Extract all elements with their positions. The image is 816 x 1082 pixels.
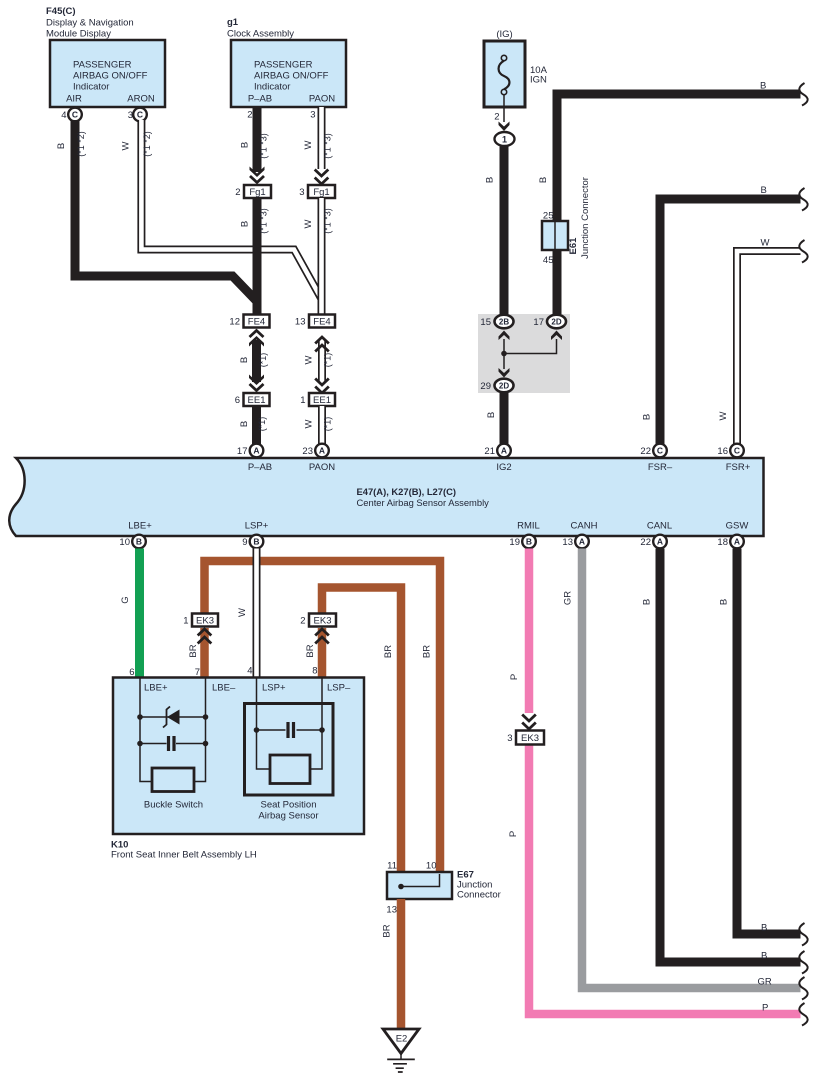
sensor internal wires — [257, 678, 323, 770]
svg-text:AIRBAG ON/OFF: AIRBAG ON/OFF — [254, 71, 329, 82]
svg-text:15: 15 — [480, 317, 491, 328]
svg-text:B: B — [486, 412, 497, 418]
svg-text:EE1: EE1 — [248, 395, 266, 406]
wire B from pin 18 GSW to right edge — [737, 549, 801, 935]
svg-text:21: 21 — [484, 446, 495, 457]
svg-text:B: B — [538, 177, 549, 183]
svg-text:Seat Position: Seat Position — [261, 800, 317, 811]
svg-text:11: 11 — [387, 861, 397, 872]
wire BR from K10 pin 8 up through EK3 over to E67 pin 11 — [322, 588, 401, 900]
svg-text:7: 7 — [195, 667, 200, 678]
svg-text:GR: GR — [563, 591, 574, 605]
svg-text:A: A — [501, 446, 507, 456]
svg-text:FE4: FE4 — [248, 317, 265, 328]
svg-text:F45(C): F45(C) — [46, 6, 76, 17]
svg-text:13: 13 — [295, 317, 306, 328]
svg-text:2D: 2D — [499, 382, 509, 391]
svg-text:EK3: EK3 — [314, 616, 332, 627]
svg-text:W: W — [303, 219, 314, 228]
gray splice block — [478, 314, 570, 393]
connector pin 1 oval — [495, 132, 515, 146]
zener diode in buckle switch — [167, 710, 180, 725]
wire B from EE1 to pin 17 — [252, 406, 261, 444]
arrow up into 17 2D — [551, 331, 562, 341]
svg-text:W: W — [303, 140, 314, 149]
svg-text:PAON: PAON — [309, 94, 335, 105]
svg-text:6: 6 — [235, 395, 240, 406]
svg-text:4: 4 — [247, 666, 252, 677]
svg-text:W: W — [718, 411, 729, 420]
wire P from pin 19 RMIL down to EK3 and right edge — [529, 549, 801, 1015]
connector 6 EE1 — [235, 393, 270, 406]
svg-text:(IG): (IG) — [496, 29, 512, 40]
svg-text:BR: BR — [188, 644, 199, 657]
splice wiring inside gray block — [504, 339, 557, 369]
svg-text:C: C — [137, 110, 143, 120]
wire B from FE4 to EE1 — [252, 340, 261, 382]
svg-text:B: B — [240, 221, 251, 227]
pin 21 (A) IG2 — [484, 444, 510, 458]
svg-text:8: 8 — [312, 666, 317, 677]
svg-text:W: W — [237, 608, 248, 617]
svg-text:3: 3 — [128, 110, 133, 121]
pin 16 (C) FSR+ — [717, 444, 743, 458]
svg-text:Indicator: Indicator — [254, 82, 290, 93]
svg-text:EK3: EK3 — [196, 616, 214, 627]
svg-text:EE1: EE1 — [313, 395, 331, 406]
svg-text:A: A — [579, 537, 585, 547]
pin 19 (B) RMIL — [509, 535, 535, 549]
svg-text:(*1): (*1) — [258, 353, 268, 368]
svg-text:2D: 2D — [551, 318, 561, 327]
pin 9 (B) LSP+ — [242, 535, 263, 549]
svg-text:(*1 *3): (*1 *3) — [259, 208, 269, 234]
pin 18 (A) GSW — [717, 535, 743, 549]
svg-text:2B: 2B — [499, 318, 509, 327]
svg-text:Junction Connector: Junction Connector — [580, 177, 591, 259]
wire B from Fg1 to FE4 — [253, 198, 262, 314]
svg-text:A: A — [657, 537, 663, 547]
wire B from E61 pin 25 up and right to break — [557, 94, 801, 221]
svg-text:CANL: CANL — [647, 521, 672, 532]
splice oval 15 2B — [480, 315, 513, 329]
wire W from FE4 to EE1 — [318, 340, 326, 382]
wire from fuse to pin 1 — [503, 95, 505, 122]
svg-text:Fg1: Fg1 — [313, 187, 329, 198]
svg-text:Connector: Connector — [457, 890, 501, 901]
wire B from pin 22 CANL to right edge — [660, 549, 801, 963]
svg-text:PASSENGER: PASSENGER — [73, 60, 132, 71]
svg-text:29: 29 — [480, 381, 491, 392]
junction connector E67 — [386, 861, 500, 916]
svg-text:Buckle Switch: Buckle Switch — [144, 800, 203, 811]
connector 13 FE4 — [295, 315, 335, 328]
svg-text:P–AB: P–AB — [248, 94, 272, 105]
svg-text:(*1 *3): (*1 *3) — [323, 208, 333, 234]
wire BR from E67 pin 13 down to ground E2 — [397, 899, 406, 1030]
svg-text:17: 17 — [237, 446, 248, 457]
svg-text:1: 1 — [183, 616, 188, 627]
svg-text:IG2: IG2 — [496, 462, 511, 473]
pin 17 (A) P-AB — [237, 444, 263, 458]
svg-text:A: A — [734, 537, 740, 547]
svg-text:PASSENGER: PASSENGER — [254, 60, 313, 71]
junction dot — [501, 351, 507, 357]
svg-text:LBE+: LBE+ — [144, 683, 168, 694]
connector 12 FE4 — [229, 315, 269, 328]
svg-text:BR: BR — [383, 645, 394, 658]
arrow up into 2 EK3 — [315, 629, 329, 644]
svg-text:LSP–: LSP– — [327, 683, 351, 694]
pin 22 (C) FSR- — [640, 444, 666, 458]
svg-text:10: 10 — [119, 537, 130, 548]
svg-text:B: B — [761, 923, 767, 934]
wire B from connector 1 down to splice 2B — [500, 147, 509, 316]
svg-text:2: 2 — [494, 112, 499, 123]
wire break CANL — [799, 951, 807, 974]
connector 3 EK3 — [507, 731, 544, 745]
E67 junction dot — [398, 884, 404, 890]
svg-text:PAON: PAON — [309, 462, 335, 473]
svg-text:W: W — [304, 419, 315, 428]
svg-text:(*1): (*1) — [323, 353, 333, 368]
E67 internal bus wire — [401, 874, 440, 887]
seat position airbag sensor box — [245, 704, 334, 796]
wire B from F45 AIR to P-AB line — [75, 120, 258, 303]
svg-text:16: 16 — [717, 446, 728, 457]
svg-text:W: W — [304, 355, 315, 364]
svg-text:Indicator: Indicator — [73, 82, 109, 93]
svg-text:18: 18 — [717, 537, 728, 548]
svg-text:IGN: IGN — [530, 75, 547, 86]
svg-text:B: B — [642, 414, 653, 420]
svg-text:B: B — [760, 81, 766, 92]
ground E2 — [383, 1029, 419, 1072]
svg-text:FSR–: FSR– — [648, 462, 673, 473]
svg-text:RMIL: RMIL — [517, 521, 540, 532]
svg-text:(*1 *2): (*1 *2) — [76, 131, 86, 157]
wire break P — [799, 1003, 807, 1026]
svg-text:B: B — [719, 599, 730, 605]
wire GR from pin 13 CANH to right edge — [582, 549, 801, 989]
wire break GR — [799, 977, 807, 1000]
arrow into Fg1 pin 3 (white) — [315, 170, 329, 185]
svg-text:G: G — [120, 596, 131, 603]
wire break FSR+ — [799, 240, 807, 263]
svg-text:E61: E61 — [568, 237, 579, 255]
svg-text:3: 3 — [507, 733, 512, 744]
svg-text:13: 13 — [562, 537, 573, 548]
svg-text:P–AB: P–AB — [248, 462, 272, 473]
svg-text:BR: BR — [422, 645, 433, 658]
svg-text:P: P — [508, 831, 519, 837]
svg-text:BR: BR — [305, 644, 316, 657]
wire break GSW — [799, 923, 807, 946]
svg-text:3: 3 — [310, 110, 315, 121]
svg-text:W: W — [121, 141, 132, 150]
component E47(A) K27(B) L27(C) Center Airbag Sensor Assembly band — [9, 458, 763, 536]
svg-text:(*1 *3): (*1 *3) — [323, 133, 333, 159]
wire B from E61 pin 45 down to splice 2D — [553, 250, 562, 315]
svg-text:Airbag Sensor: Airbag Sensor — [258, 811, 318, 822]
capacitor in buckle switch — [169, 736, 175, 751]
splice oval 17 2D — [533, 315, 566, 329]
wire W from F45 ARON to PAON line — [141, 120, 321, 299]
connector 1 EE1 — [300, 393, 335, 406]
svg-text:4: 4 — [61, 110, 66, 121]
svg-text:E47(A), K27(B), L27(C): E47(A), K27(B), L27(C) — [357, 486, 457, 497]
svg-text:FE4: FE4 — [313, 317, 330, 328]
svg-text:B: B — [239, 421, 250, 427]
svg-text:GR: GR — [758, 977, 772, 988]
svg-text:Front Seat Inner Belt Assembly: Front Seat Inner Belt Assembly LH — [111, 850, 257, 861]
splice oval 29 2D — [480, 379, 513, 393]
svg-text:A: A — [253, 446, 259, 456]
svg-text:2: 2 — [247, 110, 252, 121]
svg-text:10: 10 — [426, 861, 437, 872]
svg-text:(*1 *3): (*1 *3) — [259, 133, 269, 159]
wire W from Fg1 to FE4 — [318, 198, 326, 314]
sensor inner box — [270, 755, 310, 784]
svg-text:19: 19 — [509, 537, 520, 548]
svg-text:B: B — [485, 177, 496, 183]
svg-text:23: 23 — [302, 446, 313, 457]
svg-text:B: B — [761, 185, 767, 196]
svg-text:B: B — [642, 599, 653, 605]
connector 1 EK3 — [183, 614, 218, 627]
svg-text:W: W — [761, 238, 770, 249]
svg-text:Module Display: Module Display — [46, 29, 111, 40]
svg-text:12: 12 — [229, 317, 240, 328]
svg-text:LSP+: LSP+ — [262, 683, 286, 694]
svg-text:6: 6 — [129, 667, 134, 678]
svg-text:g1: g1 — [227, 17, 239, 28]
svg-text:B: B — [526, 537, 532, 547]
arrow into connector 1 — [499, 122, 510, 132]
wire W from pin 9 to K10 pin 4 — [253, 549, 261, 679]
component K10 Front Seat Inner Belt Assembly LH — [111, 666, 364, 861]
svg-text:22: 22 — [640, 446, 651, 457]
svg-text:C: C — [72, 110, 78, 120]
svg-text:B: B — [56, 143, 67, 149]
pin 22 (A) CANL — [640, 535, 666, 549]
wire BR from K10 pin 7 up through EK3 over to E67 pin 10 — [205, 561, 441, 880]
svg-text:3: 3 — [299, 187, 304, 198]
svg-text:GSW: GSW — [726, 521, 749, 532]
wire break FSR- — [799, 188, 807, 211]
svg-text:C: C — [734, 446, 740, 456]
svg-text:AIRBAG ON/OFF: AIRBAG ON/OFF — [73, 71, 148, 82]
connector 2 Fg1 — [235, 185, 271, 198]
buckle switch internal wires — [140, 678, 206, 782]
component F45(C) Display & Navigation Module Display — [46, 6, 165, 107]
wire G from pin 10 to K10 pin 6 — [135, 549, 144, 679]
svg-text:E2: E2 — [396, 1034, 408, 1045]
svg-text:1: 1 — [300, 395, 305, 406]
buckle switch box — [152, 768, 194, 792]
svg-text:(*1): (*1) — [257, 417, 267, 432]
pin 4 (C) of F45 — [61, 108, 82, 122]
svg-text:BR: BR — [382, 924, 393, 937]
svg-text:P: P — [509, 674, 520, 680]
svg-text:Display & Navigation: Display & Navigation — [46, 18, 134, 29]
svg-text:LBE–: LBE– — [212, 683, 236, 694]
svg-text:CANH: CANH — [571, 521, 598, 532]
arrow into Fg1 pin 2 (black) — [250, 167, 265, 178]
wire B from g1 P-AB down to Fg1 — [253, 107, 262, 172]
node dots sensor — [254, 727, 260, 733]
component g1 Clock Assembly — [227, 17, 346, 107]
wire break at right edge top — [799, 83, 807, 106]
svg-text:EK3: EK3 — [521, 733, 539, 744]
node dots buckle switch — [137, 714, 143, 720]
svg-text:FSR+: FSR+ — [726, 462, 751, 473]
svg-text:B: B — [761, 951, 767, 962]
svg-text:22: 22 — [640, 537, 651, 548]
pin 3 (C) of F45 — [128, 108, 147, 122]
arrow down into 3 EK3 — [522, 715, 536, 730]
wire W FSR+ from right edge to pin 16 — [737, 251, 801, 444]
pin 13 (A) CANH — [562, 535, 588, 549]
pin 23 (A) PAON — [302, 444, 328, 458]
svg-text:2: 2 — [300, 616, 305, 627]
svg-text:2: 2 — [235, 187, 240, 198]
svg-text:45: 45 — [543, 255, 554, 266]
svg-text:AIR: AIR — [66, 94, 82, 105]
svg-text:Center Airbag Sensor Assembly: Center Airbag Sensor Assembly — [357, 497, 490, 508]
wire W from EE1 to pin 23 — [318, 406, 326, 444]
svg-text:LSP+: LSP+ — [245, 521, 269, 532]
svg-text:LBE+: LBE+ — [128, 521, 152, 532]
svg-text:1: 1 — [502, 135, 507, 145]
svg-text:B: B — [240, 142, 251, 148]
wire W from g1 PAON down to Fg1 — [318, 107, 326, 169]
svg-text:17: 17 — [533, 317, 544, 328]
svg-text:C: C — [657, 446, 663, 456]
connector 3 Fg1 — [299, 185, 335, 198]
arrow down into 29 2D — [499, 368, 510, 378]
svg-text:B: B — [239, 357, 250, 363]
arrow up into 2B — [499, 331, 510, 341]
svg-text:P: P — [762, 1003, 768, 1014]
pin 10 (B) LBE+ — [119, 535, 145, 549]
arrow up into 1 EK3 — [198, 629, 212, 644]
capacitor in sensor — [288, 722, 294, 738]
svg-text:(*1): (*1) — [323, 417, 333, 432]
connector 2 EK3 — [300, 614, 336, 627]
svg-text:B: B — [253, 537, 259, 547]
wire B from 2D splice to IG2 pin 21 — [500, 393, 509, 445]
svg-text:9: 9 — [242, 537, 247, 548]
svg-text:(*1 *2): (*1 *2) — [142, 131, 152, 157]
svg-text:A: A — [319, 446, 325, 456]
wire B FSR- from right edge to pin 22 — [660, 199, 801, 444]
junction connector E61 — [542, 177, 591, 266]
svg-text:ARON: ARON — [127, 94, 155, 105]
svg-text:Clock Assembly: Clock Assembly — [227, 29, 294, 40]
svg-text:Fg1: Fg1 — [249, 187, 265, 198]
fuse 10A IGN — [484, 29, 548, 107]
svg-text:13: 13 — [386, 905, 397, 916]
svg-text:B: B — [136, 537, 142, 547]
